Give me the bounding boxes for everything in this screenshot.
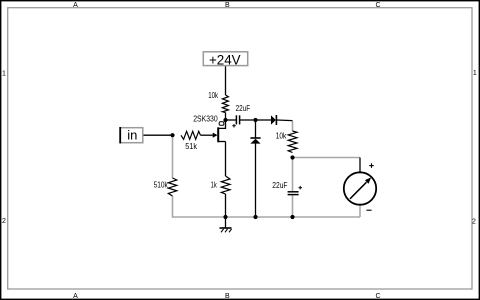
svg-text:B: B xyxy=(225,2,230,9)
svg-text:1k: 1k xyxy=(211,180,217,189)
svg-text:1: 1 xyxy=(473,70,477,77)
svg-text:2SK330: 2SK330 xyxy=(193,115,218,124)
svg-text:10k: 10k xyxy=(208,91,218,100)
svg-text:2: 2 xyxy=(472,219,476,226)
svg-text:51k: 51k xyxy=(185,142,197,151)
svg-text:1: 1 xyxy=(2,71,6,78)
svg-text:+24V: +24V xyxy=(209,52,241,67)
svg-text:22uF: 22uF xyxy=(236,104,251,113)
svg-text:2: 2 xyxy=(2,218,6,225)
svg-text:C: C xyxy=(375,2,380,9)
svg-text:C: C xyxy=(375,293,380,300)
svg-text:in: in xyxy=(127,127,137,142)
svg-text:510k: 510k xyxy=(154,181,168,190)
svg-text:A: A xyxy=(73,293,78,300)
svg-text:22uF: 22uF xyxy=(272,181,287,190)
svg-text:10k: 10k xyxy=(276,131,287,140)
svg-text:A: A xyxy=(73,2,78,9)
svg-text:B: B xyxy=(225,293,230,300)
